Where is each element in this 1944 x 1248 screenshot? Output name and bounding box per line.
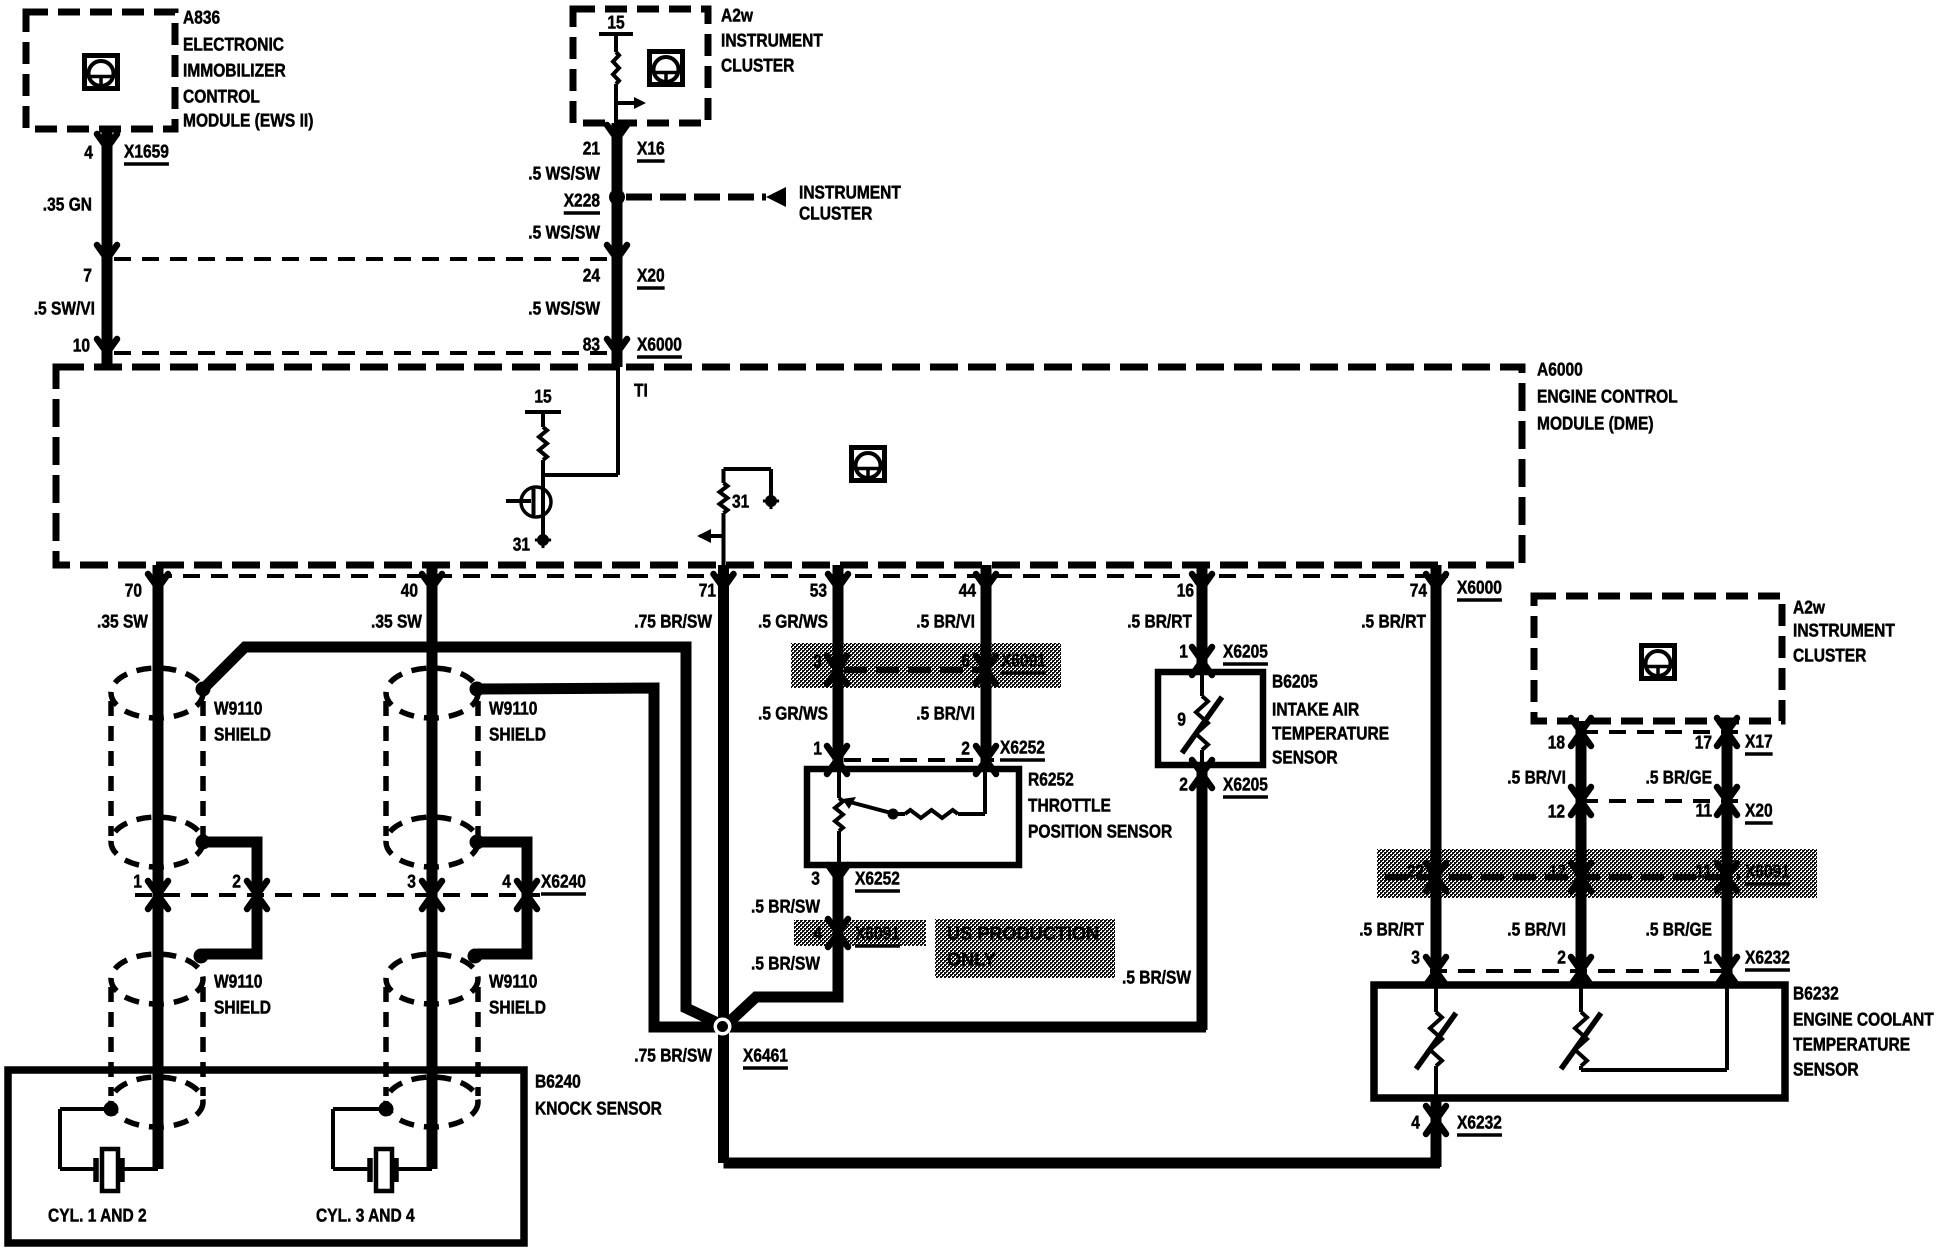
svg-text:70: 70: [125, 580, 142, 601]
svg-text:X20: X20: [637, 265, 665, 286]
svg-text:B6205: B6205: [1272, 671, 1318, 692]
svg-text:7: 7: [83, 265, 92, 286]
svg-text:40: 40: [401, 580, 418, 601]
svg-text:.5 SW/VI: .5 SW/VI: [34, 298, 95, 319]
svg-text:W9110: W9110: [214, 971, 262, 992]
svg-text:2: 2: [1557, 947, 1566, 968]
svg-text:4: 4: [1411, 1112, 1420, 1133]
svg-text:INSTRUMENT: INSTRUMENT: [721, 30, 823, 51]
svg-text:X6232: X6232: [1745, 947, 1790, 968]
svg-text:INSTRUMENT: INSTRUMENT: [1793, 620, 1895, 641]
svg-text:2: 2: [232, 871, 241, 892]
svg-text:X20: X20: [1745, 800, 1773, 821]
svg-text:IMMOBILIZER: IMMOBILIZER: [183, 60, 286, 81]
svg-text:2: 2: [1179, 774, 1188, 795]
svg-text:4: 4: [84, 142, 93, 163]
svg-text:1: 1: [1703, 947, 1712, 968]
svg-text:.5 BR/VI: .5 BR/VI: [1507, 767, 1566, 788]
svg-text:W9110: W9110: [214, 698, 262, 719]
svg-text:.5 GR/WS: .5 GR/WS: [758, 703, 828, 724]
svg-text:.5 BR/VI: .5 BR/VI: [1507, 919, 1566, 940]
svg-text:CYL. 3 AND 4: CYL. 3 AND 4: [316, 1205, 415, 1226]
svg-text:.5 BR/GE: .5 BR/GE: [1646, 919, 1713, 940]
svg-text:11: 11: [1696, 861, 1713, 882]
svg-text:X6000: X6000: [637, 334, 682, 355]
svg-text:X228: X228: [564, 190, 600, 211]
svg-text:2: 2: [961, 738, 970, 759]
svg-text:A2w: A2w: [721, 5, 753, 26]
svg-text:MODULE (DME): MODULE (DME): [1537, 413, 1654, 434]
svg-text:ELECTRONIC: ELECTRONIC: [183, 34, 284, 55]
svg-text:MODULE (EWS II): MODULE (EWS II): [183, 110, 313, 131]
svg-text:X6000: X6000: [1457, 577, 1502, 598]
svg-text:.5 BR/VI: .5 BR/VI: [916, 703, 975, 724]
svg-text:74: 74: [1410, 580, 1428, 601]
svg-text:.5 BR/RT: .5 BR/RT: [1127, 611, 1192, 632]
svg-text:.5 BR/RT: .5 BR/RT: [1361, 611, 1426, 632]
svg-text:A6000: A6000: [1537, 359, 1583, 380]
svg-text:18: 18: [1548, 732, 1565, 753]
svg-text:17: 17: [1695, 732, 1712, 753]
svg-text:X6240: X6240: [541, 871, 586, 892]
svg-text:ENGINE COOLANT: ENGINE COOLANT: [1793, 1009, 1934, 1030]
svg-text:12: 12: [1549, 861, 1566, 882]
svg-text:9: 9: [1177, 709, 1186, 730]
svg-text:SHIELD: SHIELD: [489, 997, 546, 1018]
svg-text:CLUSTER: CLUSTER: [1793, 645, 1866, 666]
svg-text:3: 3: [811, 868, 820, 889]
svg-text:X6205: X6205: [1223, 774, 1268, 795]
svg-text:X6205: X6205: [1223, 641, 1268, 662]
svg-text:6: 6: [961, 650, 970, 671]
svg-text:X6461: X6461: [743, 1045, 788, 1066]
svg-text:R6252: R6252: [1028, 769, 1074, 790]
svg-text:16: 16: [1177, 580, 1194, 601]
svg-text:SHIELD: SHIELD: [489, 724, 546, 745]
svg-text:INSTRUMENT: INSTRUMENT: [799, 182, 901, 203]
svg-text:THROTTLE: THROTTLE: [1028, 795, 1111, 816]
svg-text:TEMPERATURE: TEMPERATURE: [1793, 1034, 1910, 1055]
svg-text:22: 22: [1407, 861, 1424, 882]
svg-text:KNOCK SENSOR: KNOCK SENSOR: [535, 1098, 662, 1119]
svg-text:CLUSTER: CLUSTER: [799, 203, 872, 224]
svg-text:X17: X17: [1745, 731, 1773, 752]
svg-text:.5 BR/SW: .5 BR/SW: [1122, 967, 1191, 988]
svg-text:83: 83: [583, 334, 600, 355]
svg-text:X16: X16: [637, 138, 665, 159]
svg-text:X6091: X6091: [1001, 650, 1046, 671]
svg-text:INTAKE AIR: INTAKE AIR: [1272, 699, 1359, 720]
svg-text:.5 BR/SW: .5 BR/SW: [751, 953, 820, 974]
svg-text:A2w: A2w: [1793, 597, 1825, 618]
svg-text:15: 15: [607, 12, 624, 33]
svg-text:11: 11: [1696, 800, 1713, 821]
svg-text:CLUSTER: CLUSTER: [721, 55, 794, 76]
svg-text:71: 71: [699, 580, 716, 601]
svg-text:POSITION SENSOR: POSITION SENSOR: [1028, 821, 1172, 842]
svg-text:.5 WS/SW: .5 WS/SW: [528, 298, 600, 319]
svg-text:3: 3: [1411, 947, 1420, 968]
svg-text:4: 4: [813, 923, 822, 944]
svg-text:12: 12: [1548, 801, 1565, 822]
svg-text:W9110: W9110: [489, 698, 537, 719]
svg-text:.5 GR/WS: .5 GR/WS: [758, 611, 828, 632]
svg-text:X6252: X6252: [855, 868, 900, 889]
svg-text:.75 BR/SW: .75 BR/SW: [634, 1045, 712, 1066]
svg-text:.5 BR/SW: .5 BR/SW: [751, 896, 820, 917]
svg-text:53: 53: [810, 580, 827, 601]
svg-text:SENSOR: SENSOR: [1793, 1059, 1859, 1080]
svg-text:.35 SW: .35 SW: [97, 611, 148, 632]
svg-text:.5 BR/VI: .5 BR/VI: [916, 611, 975, 632]
svg-text:X6091: X6091: [1745, 861, 1790, 882]
svg-text:.5 BR/RT: .5 BR/RT: [1359, 919, 1424, 940]
svg-text:B6232: B6232: [1793, 983, 1839, 1004]
svg-text:X1659: X1659: [124, 141, 169, 162]
svg-text:A836: A836: [183, 7, 220, 28]
svg-text:1: 1: [1179, 641, 1188, 662]
svg-text:31: 31: [513, 534, 530, 555]
svg-text:4: 4: [502, 871, 511, 892]
svg-text:SHIELD: SHIELD: [214, 997, 271, 1018]
svg-text:24: 24: [583, 265, 601, 286]
svg-text:3: 3: [813, 651, 822, 672]
svg-text:TEMPERATURE: TEMPERATURE: [1272, 723, 1389, 744]
svg-text:10: 10: [73, 335, 90, 356]
svg-text:ONLY: ONLY: [947, 949, 996, 970]
svg-text:SHIELD: SHIELD: [214, 724, 271, 745]
svg-text:US PRODUCTION: US PRODUCTION: [947, 923, 1099, 944]
svg-text:.5 BR/GE: .5 BR/GE: [1646, 767, 1713, 788]
svg-text:CONTROL: CONTROL: [183, 86, 260, 107]
svg-text:B6240: B6240: [535, 1071, 581, 1092]
svg-text:.5 WS/SW: .5 WS/SW: [528, 222, 600, 243]
svg-text:X6091: X6091: [855, 923, 900, 944]
svg-text:.35 GN: .35 GN: [43, 194, 92, 215]
svg-text:W9110: W9110: [489, 971, 537, 992]
svg-text:TI: TI: [634, 380, 648, 401]
svg-text:X6232: X6232: [1457, 1112, 1502, 1133]
svg-text:SENSOR: SENSOR: [1272, 747, 1338, 768]
svg-text:.75 BR/SW: .75 BR/SW: [634, 611, 712, 632]
svg-text:3: 3: [407, 871, 416, 892]
svg-text:1: 1: [133, 871, 142, 892]
svg-text:15: 15: [534, 386, 551, 407]
svg-text:.35 SW: .35 SW: [371, 611, 422, 632]
svg-text:CYL. 1 AND 2: CYL. 1 AND 2: [48, 1205, 147, 1226]
svg-text:.5 WS/SW: .5 WS/SW: [528, 163, 600, 184]
svg-text:21: 21: [583, 138, 600, 159]
svg-text:ENGINE CONTROL: ENGINE CONTROL: [1537, 386, 1678, 407]
svg-text:X6252: X6252: [1000, 737, 1045, 758]
svg-text:1: 1: [813, 738, 822, 759]
svg-text:44: 44: [959, 580, 977, 601]
svg-text:31: 31: [732, 491, 749, 512]
